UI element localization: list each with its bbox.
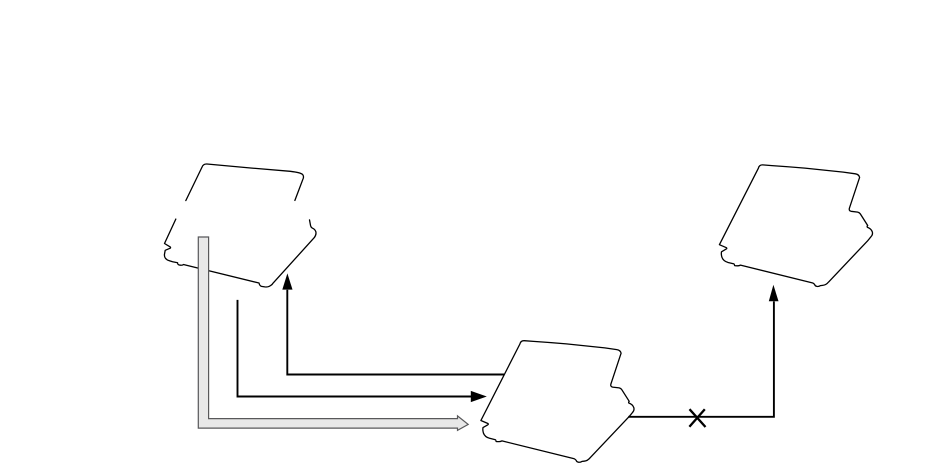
black elbow arrow C (from P2 left, then up into P1) [287, 290, 504, 375]
printer P1 body (top-left) [164, 219, 316, 287]
black elbow arrow D (from P2 right, then up into P3) [628, 301, 774, 416]
printer P2 body (bottom-middle) [481, 341, 634, 463]
arrowhead B [471, 391, 487, 402]
black elbow arrow B (down from P1 then right into P2) [238, 300, 472, 397]
gray block arrow (elbow, from P1 down then right) [198, 237, 468, 430]
printer P1 paper sheet (top-left) [186, 164, 304, 201]
arrowhead C [282, 273, 292, 289]
printer P3 body (top-right), same shape translated [719, 165, 872, 287]
X mark (crossed-out connection) [689, 409, 705, 427]
arrowhead D [769, 285, 779, 301]
